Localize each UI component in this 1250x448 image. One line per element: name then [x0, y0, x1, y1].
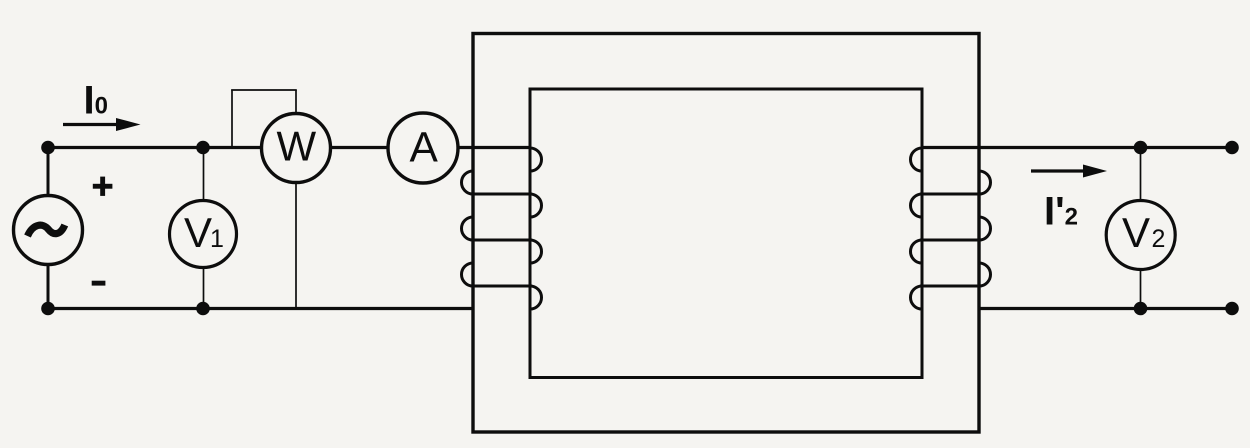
node output bottom terminal: [1225, 302, 1239, 316]
node V1 bottom junction: [196, 302, 210, 316]
node source top terminal: [41, 141, 55, 155]
ammeter A: [388, 113, 458, 183]
wire voltmeter V1 top tap: [203, 148, 205, 202]
label - polarity: [92, 281, 106, 286]
svg-text:1: 1: [210, 225, 224, 253]
wire bottom bus from source node to transformer core: [48, 307, 475, 310]
svg-text:2: 2: [1152, 225, 1166, 253]
svg-text:W: W: [277, 123, 317, 170]
node source bottom terminal: [41, 302, 55, 316]
label + polarity: [93, 177, 113, 196]
node V2 bottom junction: [1134, 302, 1148, 316]
current arrow I0: [63, 118, 141, 131]
svg-text:V: V: [184, 209, 212, 256]
wattmeter W: [262, 114, 331, 183]
wire from ammeter to primary winding: [457, 146, 532, 149]
node V2 top junction: [1134, 141, 1148, 155]
transformer core inner boundary (window): [530, 89, 922, 378]
voltmeter V2: [1106, 201, 1175, 270]
wire voltmeter V2 top tap: [1140, 148, 1142, 202]
wire secondary top output: [921, 146, 1233, 149]
wire top bus from source node to wattmeter: [48, 146, 262, 149]
wire wattmeter voltage coil bracket: [231, 90, 297, 148]
transformer core outer boundary: [473, 34, 979, 433]
wire voltmeter V2 bottom tap: [1140, 269, 1142, 309]
ac source G1: [14, 196, 83, 265]
wire wattmeter bottom tap: [295, 182, 297, 309]
wire voltmeter V1 bottom tap: [203, 267, 205, 309]
wire source bottom lead: [47, 264, 50, 309]
wire between wattmeter and ammeter: [330, 146, 389, 149]
current arrow I'2: [1031, 165, 1107, 178]
primary winding turns: [462, 148, 542, 309]
node output top terminal: [1225, 141, 1239, 155]
wire secondary bottom output: [978, 307, 1233, 310]
voltmeter V1: [170, 201, 237, 268]
secondary winding turns: [911, 148, 991, 309]
svg-text:V: V: [1122, 209, 1150, 256]
node V1 top junction: [196, 141, 210, 155]
wire source top lead: [47, 148, 50, 197]
svg-text:A: A: [410, 125, 439, 172]
